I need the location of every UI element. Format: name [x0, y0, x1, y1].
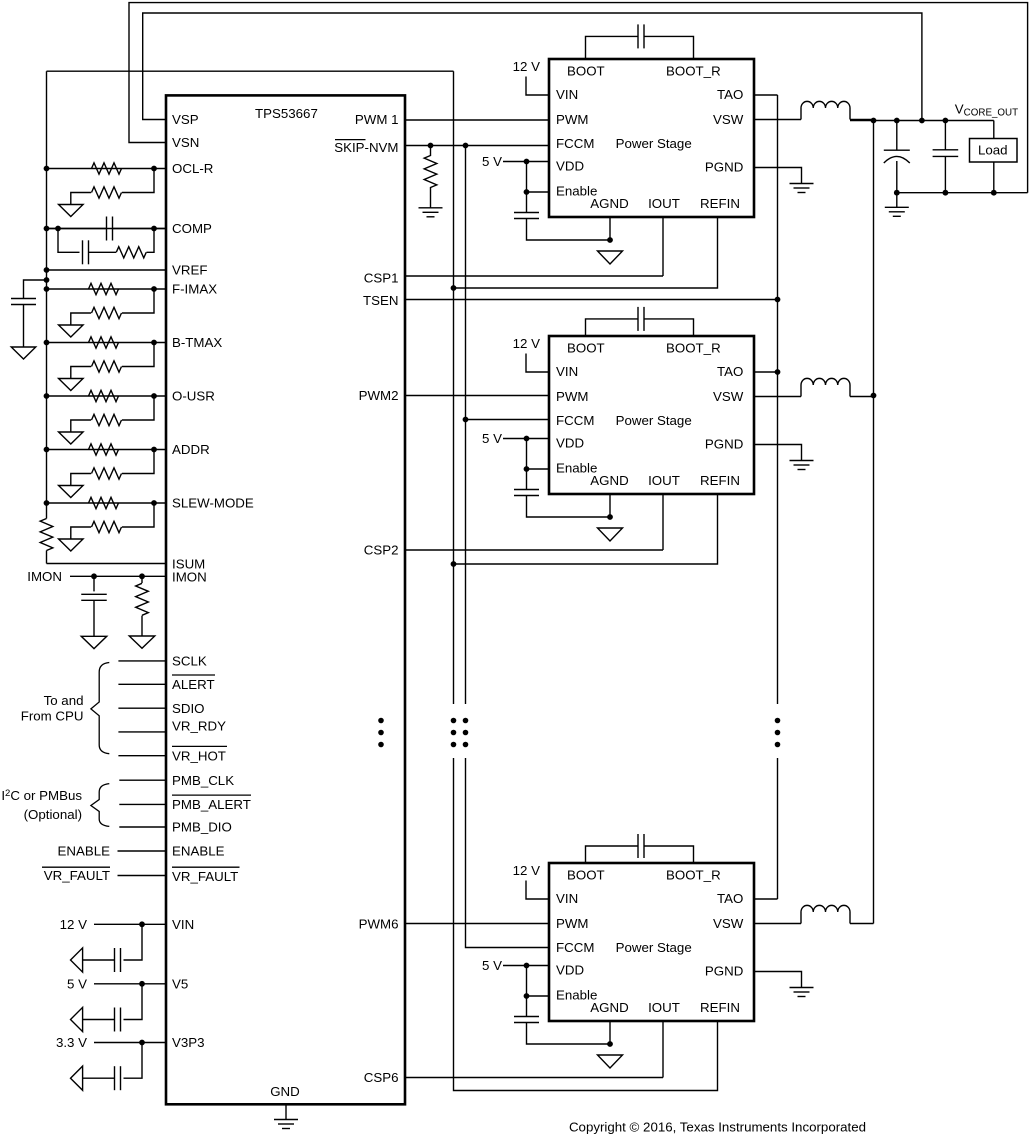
label 12 V stage3 [513, 863, 540, 878]
wire B-TMAX tap drop [122, 343, 154, 367]
svg-text:PWM: PWM [556, 112, 589, 127]
svg-text:VSW: VSW [713, 916, 744, 931]
node junction FCCM2 tap [463, 417, 469, 423]
capacitor V3P3 decoupling [115, 1066, 121, 1090]
capacitor COMP feedback C (series) [107, 217, 113, 241]
resistor F-IMAX lower [92, 307, 122, 318]
node junction COMP branch [55, 226, 61, 232]
node junction OCL-R divider tap [151, 166, 157, 172]
U3 labels [556, 341, 744, 488]
pin label VR_RDY [172, 719, 226, 734]
ground O-USR divider (analog) [59, 432, 84, 444]
resistor IMON load [136, 583, 149, 615]
ground V5 supply return arrow [71, 1007, 83, 1031]
svg-text:CSP1: CSP1 [364, 270, 399, 285]
external net label 5 V (V5) [67, 977, 87, 992]
ground F-IMAX divider (analog) [59, 325, 84, 337]
overline SKIP [335, 139, 366, 141]
wire CSP2 to IOUT2 [405, 549, 663, 551]
svg-text:F-IMAX: F-IMAX [172, 282, 217, 297]
wire O-USR pin row [47, 395, 167, 397]
svg-text:CSP6: CSP6 [364, 1070, 399, 1085]
svg-text:O-USR: O-USR [172, 389, 215, 404]
wire inductor out stage3 [850, 923, 874, 925]
svg-text:V5: V5 [172, 977, 188, 992]
svg-text:BOOT_R: BOOT_R [666, 64, 721, 79]
svg-text:CSP2: CSP2 [364, 543, 399, 558]
node junction TSEN/TAO rail [775, 297, 781, 303]
wire VR_FAULT [118, 875, 167, 877]
wire IOUT stub stage3 [662, 1021, 664, 1078]
wire VR_HOT stub [118, 755, 166, 757]
wire bootstrap loop stage3 [586, 846, 694, 863]
svg-text:IOUT: IOUT [648, 196, 680, 211]
pin label VIN [172, 917, 194, 932]
node junction AGND stage3 [607, 1041, 613, 1047]
node junction left rail COMP [44, 226, 50, 232]
external net label ENABLE [58, 844, 111, 859]
ground VIN supply return arrow [71, 948, 83, 972]
wire COMP row segments [47, 228, 167, 230]
capacitor VREF decoupling [11, 299, 36, 305]
pin label O-USR [172, 389, 215, 404]
resistor ADDR lower [92, 468, 122, 479]
wire VDD down to Enable stage1 [526, 162, 528, 193]
svg-text:AGND: AGND [590, 473, 628, 488]
svg-text:VDD: VDD [556, 963, 584, 978]
wire SLEW-MODE lower resistor to ground [71, 527, 91, 539]
svg-text:AGND: AGND [590, 196, 628, 211]
wire V5 cap to arrow [83, 1019, 115, 1021]
wire SKIP pulldown to ground [430, 187, 432, 208]
svg-text:BOOT_R: BOOT_R [666, 868, 721, 883]
svg-text:PGND: PGND [705, 964, 743, 979]
svg-text:From CPU: From CPU [21, 709, 84, 724]
svg-text:5 V: 5 V [67, 977, 87, 992]
wire VSW to inductor stage1 [754, 119, 801, 121]
wire V5 decoupling elbow [124, 984, 143, 1020]
wire bulk cap ground stub [896, 193, 898, 208]
wire Enable to cap stage1 [526, 192, 528, 213]
svg-text:Power Stage: Power Stage [616, 413, 692, 428]
svg-text:TAO: TAO [717, 364, 743, 379]
svg-text:VSN: VSN [172, 135, 199, 150]
wire left VREF rail [46, 71, 48, 503]
svg-text:5 V: 5 V [482, 154, 502, 169]
wire inductor out stage1 [850, 119, 874, 121]
external net label VR_FAULT [44, 868, 110, 883]
svg-text:AGND: AGND [590, 1000, 628, 1015]
wire COMP pin row [47, 228, 167, 230]
node junction left rail VREF [44, 267, 50, 273]
resistor OCL-R lower [92, 187, 122, 198]
resistor B-TMAX upper [89, 337, 119, 348]
wire COMP lower mid [89, 251, 117, 253]
svg-text:12 V: 12 V [60, 917, 87, 932]
wire Enable stub stage1 [527, 191, 550, 193]
svg-text:TAO: TAO [717, 891, 743, 906]
ground IMON cap (analog) [81, 636, 107, 648]
svg-text:VR_RDY: VR_RDY [172, 719, 226, 734]
wire inductor out stage2 [850, 396, 874, 398]
wire 12V to VIN stage1 [526, 77, 549, 96]
wire OCL-R pin row [47, 168, 167, 170]
svg-text:PWM: PWM [556, 916, 589, 931]
capacitor bootstrap C stage3 [638, 834, 644, 858]
svg-text:3.3 V: 3.3 V [56, 1035, 87, 1050]
wire IMON res to ground [141, 616, 143, 636]
wire VSW to inductor stage3 [754, 923, 801, 925]
pin label PWM 1 [355, 112, 399, 127]
wire ALERT stub [118, 683, 166, 685]
svg-text:Copyright © 2016, Texas Instru: Copyright © 2016, Texas Instruments Inco… [569, 1120, 866, 1135]
wire F-IMAX tap drop [122, 289, 154, 313]
ground IMON resistor (analog) [129, 636, 155, 648]
node junction SLEW-MODE divider tap [151, 500, 157, 506]
wire cap to AGND row stage2 [527, 496, 611, 518]
wire IMON pin row [70, 575, 167, 577]
wire AGND pin stub stage3 [609, 1021, 611, 1044]
ground PGND stage1 (earth) [790, 184, 814, 193]
wire VSN sense (VSN pin to load return) [129, 3, 1028, 193]
wire VSW to inductor stage2 [754, 396, 801, 398]
resistor O-USR upper [89, 390, 119, 401]
svg-text:PGND: PGND [705, 160, 743, 175]
wire VDD down to Enable stage3 [526, 966, 528, 997]
wire VR_RDY stub [118, 731, 166, 733]
svg-text:To and: To and [44, 693, 84, 708]
node junction B-TMAX divider tap [151, 340, 157, 346]
wire SKIP-NVM / FCCM1 [405, 145, 549, 147]
wire IMON res stub top [141, 576, 143, 583]
svg-text:BOOT_R: BOOT_R [666, 341, 721, 356]
inductor L3 [801, 905, 850, 923]
overline PMB_ALERT [172, 794, 251, 796]
wire ENABLE [118, 850, 167, 852]
power stage U3 box [549, 336, 754, 494]
ground AGND stage2 (analog) [598, 528, 623, 541]
wire PMB_DIO stub [119, 826, 166, 828]
label To and From CPU [21, 693, 84, 724]
overline VR_HOT [172, 745, 227, 747]
svg-text:BOOT: BOOT [567, 341, 605, 356]
resistor F-IMAX upper [89, 283, 119, 294]
svg-text:VREF: VREF [172, 263, 207, 278]
node junction Enable stage3 [524, 993, 530, 999]
wire IOUT stub stage2 [662, 494, 664, 550]
wire bootstrap loop stage2 [586, 319, 694, 336]
brace I2C/PMBus [91, 784, 109, 827]
svg-text:FCCM: FCCM [556, 136, 594, 151]
copyright note [569, 1120, 866, 1135]
node junction VSW2 [871, 393, 877, 399]
svg-text:REFIN: REFIN [700, 473, 740, 488]
pin label V3P3 [172, 1035, 205, 1050]
pin label SCLK [172, 654, 207, 669]
svg-text:BOOT: BOOT [567, 64, 605, 79]
wire rail resistor stubs [46, 503, 48, 564]
pin label VSP [172, 112, 199, 127]
wire ISUM pin row [47, 563, 167, 565]
node junction V3P3 decoupling [139, 1040, 145, 1046]
wire VCORE output node [850, 120, 994, 122]
node junction VREF cap branch [44, 277, 50, 283]
svg-text:IOUT: IOUT [648, 473, 680, 488]
svg-text:SDIO: SDIO [172, 701, 205, 716]
pin label ISUM [172, 557, 205, 572]
pin label VR_HOT [172, 748, 226, 763]
wire Enable stub stage2 [527, 468, 550, 470]
capacitor COMP lower branch C [83, 240, 89, 264]
wire IOUT stub stage1 [662, 217, 664, 276]
node junction VSW rail at output node [871, 118, 877, 124]
wire V3P3 cap to arrow [83, 1077, 115, 1079]
node junction COMP right [151, 226, 157, 232]
svg-text:REFIN: REFIN [700, 1000, 740, 1015]
node ellipsis dots (TAO rail) [775, 718, 781, 748]
wire SKIP pulldown stub [430, 146, 432, 157]
wire VREF top run to REFIN rail [47, 70, 454, 72]
node junction SKIP pulldown [428, 143, 434, 149]
wire Enable to cap stage3 [526, 996, 528, 1017]
wire CSP6 to IOUT3 [405, 1077, 663, 1079]
svg-text:ALERT: ALERT [172, 677, 215, 692]
wire 12V to VIN stage3 [526, 881, 549, 900]
node ellipsis dots (FCCM rail) [463, 718, 469, 748]
wire GND stub [285, 1104, 287, 1119]
wire 12V to VIN stage2 [526, 354, 549, 373]
wire 3.3 V supply [94, 1042, 167, 1044]
capacitor V5 decoupling [115, 1008, 121, 1032]
node junction left rail SLEW-MODE [44, 500, 50, 506]
pin label PWM6 [359, 917, 399, 932]
node junction REFIN2 tap [451, 561, 457, 567]
ground PGND stage3 (earth) [790, 988, 814, 997]
wire VREF cap to ground [23, 305, 25, 348]
svg-text:TPS53667: TPS53667 [255, 106, 318, 121]
wire Enable to cap stage2 [526, 469, 528, 490]
svg-text:VR_FAULT: VR_FAULT [44, 868, 110, 883]
external net label IMON [27, 569, 62, 584]
wire PWM1 to stage1 [405, 119, 549, 121]
pin label F-IMAX [172, 282, 217, 297]
node junction AGND stage1 [607, 237, 613, 243]
wire PMB_CLK stub [119, 779, 166, 781]
node junction left rail ADDR [44, 447, 50, 453]
wire B-TMAX lower resistor to ground [71, 367, 91, 379]
wire VIN decoupling elbow [124, 924, 143, 960]
svg-text:Load: Load [978, 143, 1008, 158]
inductor L2 [801, 378, 850, 396]
label 12 V stage1 [513, 59, 540, 74]
wire O-USR tap drop [122, 396, 154, 420]
wire VDD down to Enable stage2 [526, 439, 528, 470]
ground output cap (earth) [885, 207, 909, 216]
svg-text:PMB_CLK: PMB_CLK [172, 773, 234, 788]
svg-text:COMP: COMP [172, 221, 212, 236]
resistor left rail bottom (ISUM) [40, 519, 53, 551]
node junction left rail OCL-R [44, 166, 50, 172]
svg-text:VDD: VDD [556, 159, 584, 174]
svg-text:12 V: 12 V [513, 59, 540, 74]
svg-text:I2C or PMBus: I2C or PMBus [1, 788, 82, 803]
capacitor VDD bypass stage2 [514, 490, 539, 496]
svg-text:VSW: VSW [713, 389, 744, 404]
node ellipsis dots (PWM3-5) [378, 718, 384, 748]
wire AGND pin stub stage1 [609, 217, 611, 240]
wire PGND stage2 [754, 445, 802, 461]
wire cap to AGND row stage1 [527, 219, 611, 241]
resistor OCL-R upper [92, 163, 122, 174]
wire output ground rail [897, 192, 1028, 194]
node junction left rail F-IMAX [44, 286, 50, 292]
resistor B-TMAX lower [92, 361, 122, 372]
wire 5V to VDD stage1 [503, 161, 549, 163]
svg-text:VR_HOT: VR_HOT [172, 748, 226, 763]
wire REFIN rail upper (VREF) [453, 71, 455, 704]
wire TAO stub stage1 [754, 94, 778, 96]
wire V3P3 decoupling elbow [124, 1043, 143, 1079]
svg-text:TAO: TAO [717, 87, 743, 102]
node junction output caps [894, 118, 948, 124]
pin label PMB_DIO [172, 820, 232, 835]
svg-text:SLEW-MODE: SLEW-MODE [172, 496, 254, 511]
capacitor ceramic output [933, 121, 959, 193]
wire TAO rail upper [777, 95, 779, 704]
wire TAO stub stage2 [754, 371, 778, 373]
svg-text:REFIN: REFIN [700, 196, 740, 211]
node junction O-USR divider tap [151, 393, 157, 399]
wire 5V to VDD stage3 [503, 965, 549, 967]
wire VIN cap to arrow [83, 959, 115, 961]
svg-text:VDD: VDD [556, 436, 584, 451]
wire REFIN rail lower [454, 758, 718, 1091]
op-amp controller U1 TPS53667 box [166, 95, 405, 1104]
wire SLEW-MODE pin row [47, 502, 167, 504]
svg-text:OCL-R: OCL-R [172, 161, 213, 176]
wire PMB_ALERT stub [119, 803, 166, 805]
pin label B-TMAX [172, 335, 222, 350]
wire VREF decoupling branch [24, 280, 47, 299]
wire cap to AGND row stage3 [527, 1023, 611, 1045]
ground GND pin (earth) [274, 1120, 298, 1129]
label 12 V stage2 [513, 336, 540, 351]
capacitor VDD bypass stage1 [514, 213, 539, 219]
svg-text:PWM: PWM [556, 389, 589, 404]
wire IMON cap stub [93, 576, 95, 591]
ground SKIP pulldown (earth) [419, 208, 443, 217]
pin label PMB_CLK [172, 773, 234, 788]
ground VREF cap (analog) [11, 347, 36, 359]
svg-text:5 V: 5 V [482, 958, 502, 973]
node junction SKIP to FCCM rail [463, 143, 469, 149]
wire TAO stub stage3 [754, 898, 778, 900]
power stage U4 box [549, 863, 754, 1021]
svg-text:IOUT: IOUT [648, 1000, 680, 1015]
wire OCL-R tap drop [122, 169, 154, 193]
ground B-TMAX divider (analog) [59, 379, 84, 391]
node junction Enable stage1 [524, 189, 530, 195]
ground SLEW-MODE divider (analog) [59, 539, 84, 551]
wire VSW rail [873, 121, 875, 924]
node junction AGND stage2 [607, 514, 613, 520]
wire B-TMAX pin row [47, 342, 167, 344]
wire 12 V supply [94, 923, 167, 925]
ground V3P3 supply return arrow [71, 1066, 83, 1090]
svg-text:5 V: 5 V [482, 431, 502, 446]
node junction ground rail [894, 190, 997, 196]
node junction REFIN1 tap [451, 285, 457, 291]
svg-text:Power Stage: Power Stage [616, 136, 692, 151]
svg-text:(Optional): (Optional) [24, 807, 82, 822]
label 5 V stage1 [482, 154, 502, 169]
svg-text:VIN: VIN [172, 917, 194, 932]
resistor ADDR upper [89, 444, 119, 455]
svg-text:FCCM: FCCM [556, 940, 594, 955]
external net label 3.3 V (V3P3) [56, 1035, 87, 1050]
node junction ADDR divider tap [151, 447, 157, 453]
wire COMP lower branch up to pin row [147, 229, 155, 253]
pin label OCL-R [172, 161, 213, 176]
wire 5 V supply [94, 983, 167, 985]
node junction VIN decoupling [139, 921, 145, 927]
node junction left rail B-TMAX [44, 340, 50, 346]
load block [970, 121, 1018, 193]
brace To/From CPU [91, 663, 109, 754]
pin label CSP1 [364, 270, 399, 285]
overline VR_FAULT pin [172, 866, 240, 868]
pin label COMP [172, 221, 212, 236]
wire TAO rail lower [777, 758, 779, 899]
svg-text:PWM2: PWM2 [359, 388, 399, 403]
U2 labels [556, 64, 744, 211]
resistor SLEW-MODE upper [89, 497, 119, 508]
U1 label TPS53667 [255, 106, 318, 121]
node junction TAO2 [775, 369, 781, 375]
wire PWM2 to stage2 [405, 395, 549, 397]
label I2C or PMBus [1, 788, 82, 822]
pin label ALERT [172, 677, 215, 692]
svg-text:VIN: VIN [556, 364, 578, 379]
wire FCCM rail lower [466, 758, 550, 948]
svg-text:ENABLE: ENABLE [172, 844, 225, 859]
pin label SLEW-MODE [172, 496, 254, 511]
wire REFIN2 row [454, 494, 718, 565]
capacitor IMON filter [81, 594, 107, 600]
svg-text:VIN: VIN [556, 891, 578, 906]
wire Enable stub stage3 [527, 995, 550, 997]
node junction IMON resistor [139, 573, 145, 579]
wire PWM6 to stage3 [405, 923, 549, 925]
wire VREF pin row [47, 269, 167, 271]
svg-text:SKIP-NVM: SKIP-NVM [334, 140, 398, 155]
resistor COMP lower branch R [116, 247, 146, 258]
wire SLEW-MODE tap drop [122, 503, 154, 527]
label 5 V stage2 [482, 431, 502, 446]
svg-text:PMB_DIO: PMB_DIO [172, 820, 232, 835]
pin label VREF [172, 263, 207, 278]
svg-text:GND: GND [270, 1084, 300, 1099]
wire IMON cap to ground [93, 600, 95, 636]
pin label TSEN [363, 293, 398, 308]
wire COMP lower branch [58, 229, 80, 253]
pin label GND [270, 1084, 300, 1099]
wire ADDR pin row [47, 449, 167, 451]
svg-text:PWM 1: PWM 1 [355, 112, 399, 127]
ground AGND stage3 (analog) [598, 1055, 623, 1068]
wire O-USR lower resistor to ground [71, 420, 91, 432]
svg-text:12 V: 12 V [513, 336, 540, 351]
